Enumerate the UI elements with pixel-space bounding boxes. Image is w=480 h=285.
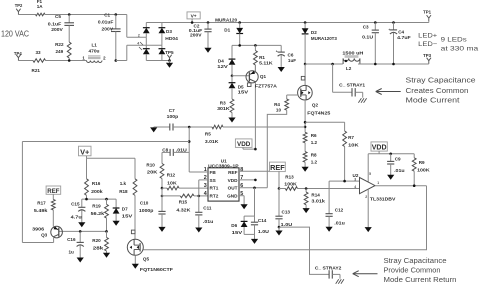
- label 200V: [51, 27, 63, 32]
- junction D4 / D5 / Q1 base: [231, 75, 234, 78]
- resistor R12: [162, 186, 208, 190]
- svg-text:R20: R20: [92, 238, 101, 243]
- wire FB pin 1: [189, 171, 208, 173]
- label FZT757A: [255, 84, 278, 89]
- label 0.01uF: [98, 20, 114, 25]
- wire AC stub upper to bridge: [127, 36, 147, 38]
- svg-text:5.49k: 5.49k: [34, 208, 48, 213]
- pin 4 name RT2: [210, 194, 219, 199]
- svg-text:TP2: TP2: [15, 3, 23, 8]
- svg-text:L1: L1: [92, 43, 98, 48]
- label Q2: [312, 102, 319, 107]
- label .01u (C12): [334, 220, 345, 225]
- wire AC stub lower vertical: [126, 45, 128, 60]
- pin number 2: [204, 175, 207, 181]
- wire LED- rail down to C_STRAY1: [332, 64, 334, 92]
- label TP1: [423, 10, 431, 15]
- wire clamp top bracket: [244, 215, 254, 217]
- test point TP4: [16, 55, 20, 61]
- note creates common: [406, 88, 469, 95]
- ground arrow under C10: [158, 227, 165, 232]
- label L1: [92, 43, 98, 48]
- svg-text:D6: D6: [231, 223, 237, 228]
- junction source / R7 wire: [304, 121, 307, 124]
- svg-text:OUT: OUT: [228, 186, 238, 191]
- plus mark of C6: [276, 49, 278, 53]
- junction LED- rail / C3: [374, 63, 377, 66]
- pin 3 of U2: [354, 178, 356, 182]
- net label REF (left): [46, 186, 61, 195]
- package marker on Q5: [131, 230, 135, 234]
- svg-text:15V: 15V: [232, 230, 244, 235]
- label FQT1N60CTF: [140, 267, 173, 272]
- wire feedback left vertical: [21, 142, 23, 243]
- net label V+ (left): [79, 146, 92, 156]
- svg-text:D2: D2: [311, 30, 317, 35]
- svg-text:4: 4: [204, 191, 207, 197]
- wire OUT pin 6: [239, 187, 267, 189]
- label 1000p: [139, 208, 154, 213]
- label MURA120: [215, 18, 237, 23]
- junction R10 / R12 / C10: [161, 187, 164, 190]
- label 33: [36, 50, 42, 55]
- wire op amp output: [375, 185, 427, 187]
- svg-text:R5: R5: [205, 131, 211, 136]
- wire R18 to Q5 drain: [134, 196, 136, 240]
- label D1: [224, 28, 230, 33]
- pin 8 name REF: [228, 170, 238, 175]
- svg-text:33: 33: [36, 50, 42, 55]
- svg-text:R4: R4: [274, 102, 280, 107]
- label C9: [395, 157, 401, 162]
- svg-text:R3: R3: [220, 101, 226, 106]
- net label V+ (top): [187, 12, 200, 20]
- ground arrow at C7: [150, 127, 157, 132]
- label 470u: [89, 49, 100, 54]
- label 56.2k: [91, 211, 105, 216]
- junction R5 wire / FB line: [188, 126, 191, 129]
- svg-text:1000p: 1000p: [139, 208, 154, 213]
- label 100p: [167, 114, 179, 119]
- label R4: [274, 102, 280, 107]
- svg-text:1A: 1A: [37, 4, 44, 9]
- junction LED- rail / C_STRAY1: [331, 63, 334, 66]
- svg-text:R10: R10: [146, 163, 155, 168]
- junction node / R16: [85, 198, 88, 201]
- svg-text:VDD: VDD: [228, 178, 239, 183]
- wire drain line to Q2: [304, 64, 306, 85]
- svg-text:C6: C6: [288, 52, 294, 57]
- label LED-: [418, 41, 437, 48]
- label D6: [231, 223, 237, 228]
- label C16: [67, 237, 76, 242]
- capacitor C11: [195, 196, 202, 228]
- label C_STRAY1: [339, 82, 365, 87]
- pin number 1: [204, 167, 207, 173]
- pin number 5: [240, 191, 243, 197]
- svg-text:9 LEDs: 9 LEDs: [441, 37, 468, 44]
- svg-text:FQT4N25: FQT4N25: [307, 111, 331, 116]
- wire V+ rail D2 to C3: [305, 22, 375, 24]
- svg-text:GND: GND: [227, 194, 238, 199]
- label 1500 uH: [342, 51, 364, 56]
- pin 1 name FB: [210, 170, 217, 175]
- label 15V: [238, 90, 250, 95]
- zener D6 15V: [241, 216, 248, 234]
- label C14: [258, 218, 267, 223]
- resistor R20: [105, 231, 109, 252]
- label F1: [37, 0, 43, 4]
- label 100K (R9): [417, 167, 430, 172]
- ground arrow under R3: [228, 117, 235, 123]
- junction bottom rail / C1: [115, 59, 118, 62]
- pin 3 name RT1: [210, 186, 219, 191]
- pin 6 name OUT: [228, 186, 238, 191]
- fuse F1: [36, 13, 46, 16]
- junction VDD row / C9: [389, 153, 392, 156]
- ground arrow under C12: [326, 227, 333, 232]
- label C8: [162, 148, 168, 153]
- wire D1 node line: [232, 44, 281, 46]
- svg-text:1.2: 1.2: [311, 140, 318, 145]
- svg-text:470u: 470u: [89, 49, 100, 54]
- junction source / R5 wire: [304, 126, 307, 129]
- wire R10 to C10: [161, 188, 163, 206]
- svg-text:15V: 15V: [122, 213, 134, 218]
- transistor Q3 2N3906 (PNP): [51, 226, 63, 238]
- transistor Q2 FQT4N25: [298, 85, 313, 100]
- wire top AC rail to bridge corner: [116, 14, 127, 16]
- ground arrow under C9: [387, 175, 394, 180]
- svg-text:R17: R17: [37, 201, 46, 206]
- svg-text:249: 249: [56, 49, 64, 54]
- label 200V: [102, 26, 114, 31]
- svg-text:C12: C12: [335, 208, 344, 213]
- plus mark of C4: [388, 28, 390, 32]
- label UCC3809-1P: [208, 164, 239, 169]
- junction V+ rail / stub: [191, 21, 194, 24]
- svg-text:5.11K: 5.11K: [259, 61, 273, 66]
- svg-text:0.01uF: 0.01uF: [98, 20, 114, 25]
- svg-text:C11: C11: [203, 206, 212, 211]
- earth hatch at C_STRAY2: [336, 279, 344, 284]
- svg-text:56.2k: 56.2k: [91, 211, 105, 216]
- svg-text:100p: 100p: [167, 114, 179, 119]
- wire FB vertical: [188, 127, 190, 172]
- wire R13 to minus input: [306, 188, 359, 190]
- svg-text:4.7uF: 4.7uF: [397, 35, 411, 40]
- junction base line / R19 R20: [105, 230, 108, 233]
- diode D3d bridge lower-right: [159, 45, 166, 60]
- label 0.1uF: [189, 28, 203, 33]
- wire C8 row to R10: [161, 152, 163, 163]
- ground arrow at TP5: [166, 61, 173, 68]
- label D5: [238, 84, 244, 89]
- resistor R21: [33, 59, 46, 63]
- wire to C_STRAY1: [333, 91, 352, 93]
- wire bottom AC rail end: [116, 60, 127, 62]
- junction base line / C16: [79, 230, 82, 233]
- wire bottom AC rail segment: [19, 60, 33, 62]
- label .01u: [203, 219, 214, 224]
- label D2: [311, 30, 317, 35]
- wire top AC rail to snubber: [45, 14, 69, 16]
- label 15V (D6): [232, 230, 244, 235]
- junction top rail / C5: [68, 13, 71, 16]
- capacitor C5: [64, 15, 74, 41]
- svg-text:L2: L2: [346, 66, 352, 71]
- svg-text:RT1: RT1: [210, 186, 219, 191]
- test point TP5: [167, 55, 171, 61]
- label 4.32K: [176, 207, 191, 212]
- svg-text:15V: 15V: [238, 90, 250, 95]
- svg-text:D4: D4: [218, 59, 224, 64]
- label C2: [194, 24, 200, 29]
- svg-text:V+: V+: [191, 13, 197, 19]
- transistor Q5 FQT1N60CTF: [127, 239, 143, 255]
- label R3: [220, 101, 226, 106]
- label C5: [55, 14, 61, 19]
- svg-text:Provide Common: Provide Common: [384, 268, 441, 275]
- wire LED- rail L2 to C3: [358, 63, 375, 65]
- capacitor C_STRAY1: [352, 88, 363, 96]
- wire clamp bottom bracket: [244, 233, 254, 235]
- wire VDD row: [368, 153, 414, 155]
- label C11: [203, 206, 212, 211]
- svg-text:R1: R1: [259, 55, 265, 60]
- label R14: [311, 193, 320, 198]
- pin number 6: [240, 183, 243, 189]
- label 120 VAC: [1, 30, 29, 39]
- svg-text:LED+: LED+: [418, 33, 437, 40]
- pin 1 of U2: [377, 181, 379, 185]
- svg-text:Creates Common: Creates Common: [406, 88, 469, 95]
- svg-text:TP1: TP1: [423, 10, 431, 15]
- annotation arrow (top): [376, 89, 401, 95]
- junction output / R9: [413, 184, 416, 187]
- wire op amp gnd pin: [367, 189, 369, 226]
- label R16: [92, 181, 101, 186]
- ground arrow under Q5: [132, 259, 139, 269]
- ground arrow under C15: [78, 222, 85, 228]
- annotation arrow (bottom): [353, 271, 378, 277]
- svg-text:2: 2: [365, 195, 367, 199]
- svg-text:R22: R22: [55, 42, 64, 47]
- label R20: [92, 238, 101, 243]
- label 3.01K: [205, 139, 219, 144]
- label R1: [259, 55, 265, 60]
- svg-text:200V: 200V: [102, 26, 114, 31]
- ground arrow under clamp: [251, 234, 258, 244]
- svg-text:10K: 10K: [167, 181, 177, 186]
- svg-text:1: 1: [377, 181, 379, 185]
- label R6: [311, 133, 317, 138]
- svg-text:R15: R15: [179, 199, 188, 204]
- wire bottom AC rail to L1: [46, 60, 87, 62]
- label 4.7u: [71, 214, 82, 219]
- package marker on Q1: [247, 83, 251, 87]
- diode D2 MURA120T3: [302, 23, 309, 65]
- ground arrow under C2: [204, 47, 211, 53]
- ground arrow under D7: [113, 220, 120, 226]
- zener D7 15V: [113, 199, 120, 220]
- label U1: [221, 159, 227, 164]
- label 5.11K: [259, 61, 273, 66]
- label .01U: [176, 148, 188, 153]
- wire REF node to C_STRAY2: [279, 227, 329, 274]
- label 20K: [147, 170, 158, 175]
- wire AC stub upper vertical: [126, 15, 128, 38]
- test point TP1: [427, 15, 431, 21]
- wire V+ rail C3 to C4: [375, 22, 393, 24]
- note stray capacitance creates: [406, 78, 476, 85]
- svg-text:120 VAC: 120 VAC: [1, 30, 29, 39]
- wire V+ rail C4 to TP1: [394, 22, 429, 24]
- svg-text:C15: C15: [71, 202, 80, 207]
- svg-text:UCC3809–1P: UCC3809–1P: [208, 164, 239, 169]
- svg-text:R8: R8: [311, 153, 317, 158]
- svg-text:5: 5: [369, 172, 371, 176]
- svg-text:200V: 200V: [51, 27, 63, 32]
- label LED+: [418, 33, 437, 40]
- label 1.2 (R8): [311, 159, 318, 164]
- svg-text:0.1U: 0.1U: [362, 34, 374, 39]
- pin 2 of L1: [103, 56, 106, 61]
- label 1uF: [288, 58, 296, 63]
- wire REF to C13: [278, 189, 280, 215]
- svg-text:4.32K: 4.32K: [176, 207, 191, 212]
- svg-text:Stray Capacitance: Stray Capacitance: [406, 78, 476, 85]
- svg-text:C14: C14: [258, 218, 267, 223]
- wire feedback bottom: [22, 242, 53, 244]
- svg-text:R7: R7: [348, 135, 354, 140]
- label 0.1U: [362, 34, 374, 39]
- label R19: [92, 203, 101, 208]
- svg-text:VDD: VDD: [372, 145, 387, 152]
- label 15V: [122, 213, 134, 218]
- svg-text:Q5: Q5: [143, 256, 150, 261]
- svg-text:C9: C9: [395, 157, 401, 162]
- label TP3: [423, 53, 431, 58]
- label C7: [169, 108, 175, 113]
- svg-text:REF: REF: [270, 163, 285, 172]
- junction node / R1: [254, 44, 257, 47]
- label 12V: [217, 64, 229, 69]
- svg-text:3906: 3906: [32, 227, 45, 232]
- label 249: [56, 49, 64, 54]
- pin 1 of L1: [82, 56, 85, 61]
- resistor R1: [254, 45, 258, 71]
- svg-text:C16: C16: [67, 237, 76, 242]
- capacitor C2: [204, 23, 211, 48]
- wire VDD box tap: [243, 148, 255, 150]
- wire source to R7: [305, 121, 345, 123]
- svg-text:Q3: Q3: [41, 232, 48, 237]
- svg-text:3.01k: 3.01k: [311, 198, 325, 203]
- junction R15 wire / C11: [198, 195, 201, 198]
- zener D4 12V: [229, 58, 236, 76]
- ground arrow under R8: [302, 162, 309, 172]
- resistor R15: [162, 194, 208, 198]
- junction OUT / clamp: [253, 187, 256, 190]
- capacitor C14: [251, 216, 258, 234]
- svg-text:Q2: Q2: [312, 102, 319, 107]
- label R7: [348, 135, 354, 140]
- pin 2 of bridge: [138, 34, 140, 38]
- resistor R5: [189, 125, 305, 129]
- svg-text:C5: C5: [55, 14, 61, 19]
- svg-text:MURA120: MURA120: [215, 18, 237, 23]
- wire Q3 collector stub: [53, 238, 55, 243]
- svg-text:10K: 10K: [348, 143, 359, 148]
- label R12: [167, 173, 176, 178]
- wire REF pin 8: [239, 170, 279, 172]
- wire C12 vertical: [328, 181, 330, 209]
- wire R7 to plus input jog: [329, 180, 345, 182]
- resistor R3: [230, 96, 234, 118]
- svg-text:R9: R9: [419, 160, 425, 165]
- junction C13 bottom: [278, 226, 281, 229]
- label R13: [285, 175, 294, 180]
- earth hatch at C_STRAY1: [358, 98, 366, 103]
- label C6: [288, 52, 294, 57]
- svg-text:MURA120T3: MURA120T3: [311, 36, 337, 41]
- label Q1: [260, 74, 267, 79]
- label TP5: [165, 50, 174, 55]
- svg-text:C3: C3: [363, 24, 369, 29]
- wire op amp V+ pin: [367, 154, 369, 182]
- resistor R22: [67, 41, 71, 61]
- capacitor C4: [390, 23, 397, 65]
- svg-text:VDD: VDD: [237, 141, 251, 148]
- junction V+ rail / C2: [207, 21, 210, 24]
- IC U1 UCC3809-1P box: [208, 168, 239, 201]
- pin 7 name VDD: [228, 178, 239, 183]
- wire C_STRAY2 to earth: [339, 274, 341, 278]
- label R15: [179, 199, 188, 204]
- svg-text:1.0U: 1.0U: [281, 222, 293, 227]
- svg-text:V+: V+: [80, 147, 90, 156]
- svg-text:200k: 200k: [91, 189, 103, 194]
- svg-text:0.1uF: 0.1uF: [48, 22, 62, 27]
- label 1A: [37, 4, 44, 9]
- label 3906: [32, 227, 45, 232]
- capacitor C10: [158, 207, 165, 228]
- wire clamp vertical: [254, 188, 256, 216]
- ground arrow under C6: [278, 67, 285, 72]
- capacitor C8: [162, 149, 189, 156]
- pin 4 of U2: [354, 185, 356, 189]
- label D7: [122, 207, 128, 212]
- label 200k: [91, 189, 103, 194]
- op-amp U2 TL331DBV: [360, 178, 376, 194]
- note stray capacitance provides: [384, 258, 447, 265]
- wire REF box to R13: [278, 171, 280, 188]
- capacitor C7: [154, 124, 190, 131]
- label TL331DBV: [370, 196, 397, 201]
- resistor R9: [412, 154, 416, 186]
- svg-text:8: 8: [240, 167, 243, 173]
- inductor L2 1500uH: [343, 56, 360, 64]
- svg-text:10: 10: [276, 107, 282, 112]
- wire V+ box stub: [191, 19, 193, 23]
- label 10K: [167, 181, 177, 186]
- label HD04: [165, 36, 178, 41]
- test point TP2: [16, 9, 20, 15]
- svg-text:1u: 1u: [69, 249, 75, 254]
- label D3: [166, 29, 172, 34]
- svg-text:1.k: 1.k: [120, 181, 127, 186]
